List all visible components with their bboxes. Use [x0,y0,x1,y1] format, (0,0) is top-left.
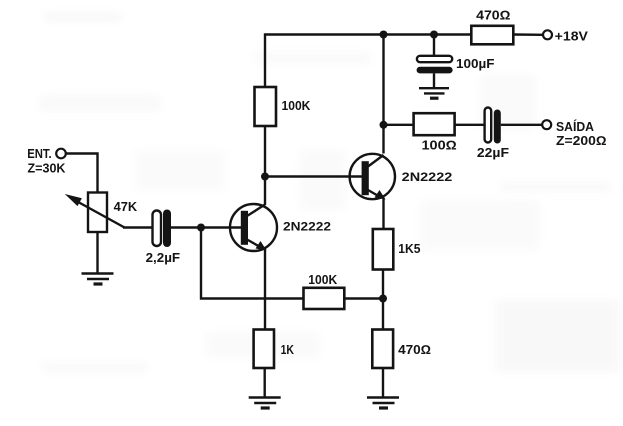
node 100 ohm tap junction dot [380,121,388,129]
capacitor 22uF plates [485,108,501,144]
terminal ENT. input circle [56,149,66,159]
svg-text:1K5: 1K5 [398,242,420,256]
resistor 470 ohm emitter [372,330,393,369]
wire Q1 collector to Q2 base [265,175,362,177]
wire 1K to ground [264,368,266,397]
wire base node down to feedback line [201,228,304,299]
svg-text:470Ω: 470Ω [476,8,510,22]
node base Q1 junction dot [197,224,205,232]
resistor 100K collector load [255,87,277,126]
wire Q1 emitter down to 1K [264,249,266,330]
capacitor 100uF plates [417,56,453,74]
wire rail to 100uF [433,35,435,57]
potentiometer 47K body [88,193,107,233]
svg-text:22µF: 22µF [477,146,509,160]
svg-text:100Ω: 100Ω [422,138,457,152]
terminal SAIDA circle [542,120,551,129]
wire 100K to top rail [265,35,472,88]
wire 22uF to SAIDA terminal [501,124,542,126]
transistor Q1 2N2222 [230,204,277,251]
svg-text:470Ω: 470Ω [398,343,431,357]
svg-text:SAÍDA: SAÍDA [556,119,594,134]
node top rail / Q2 collector dot [380,31,388,39]
resistor 1K5 [373,229,394,270]
resistor 100K feedback [304,288,345,309]
svg-text:+18V: +18V [555,30,589,44]
resistor 470 ohm supply [471,26,513,45]
svg-text:2,2µF: 2,2µF [146,251,181,265]
node 100uF tap dot [430,31,438,39]
svg-text:100µF: 100µF [456,57,495,71]
wire 470 ohm to ground [382,368,384,397]
ground (1K) [249,398,281,409]
wire wiper to capacitor C1 [123,226,152,228]
wire input terminal to pot top [66,154,98,193]
wire 100uF to ground [433,73,435,87]
svg-text:1K: 1K [281,343,294,357]
svg-text:47K: 47K [114,200,138,214]
ground (100uF) [419,88,449,98]
scan background texture [40,12,620,373]
transistor Q2 2N2222 [350,154,395,200]
potentiometer wiper arrow [65,194,125,228]
node feedback junction dot [379,295,387,303]
resistor 1K [254,330,274,369]
ground (pot) [82,274,114,285]
svg-text:100K: 100K [282,99,311,113]
wire tap to 100 ohm resistor [384,124,414,126]
wire 100 ohm to 22uF [455,124,485,126]
wire C1 to Q1 base [171,226,241,228]
wire 100K feedback to emitter node [344,297,383,299]
resistor 100 ohm output [414,113,455,135]
svg-text:2N2222: 2N2222 [402,170,453,184]
svg-text:100K: 100K [308,273,337,287]
svg-text:ENT.: ENT. [27,147,52,161]
wire Q2 emitter down to 1K5 [382,198,384,230]
wire Q2 collector up to top rail [382,35,384,154]
wire 1K5 to 470 ohm [382,270,384,330]
svg-text:Z=200Ω: Z=200Ω [556,134,607,148]
ground (470 ohm) [367,398,399,409]
wire pot bottom to ground [96,232,98,273]
svg-text:Z=30K: Z=30K [28,162,66,176]
capacitor 2,2uF plates [153,210,172,248]
wire Q1 collector up to resistor R2 [264,126,266,205]
svg-text:2N2222: 2N2222 [283,220,331,234]
terminal +18V circle [543,30,552,39]
wire 470 ohm to +18V terminal [514,33,543,36]
node Q1 collector junction dot [261,173,269,181]
